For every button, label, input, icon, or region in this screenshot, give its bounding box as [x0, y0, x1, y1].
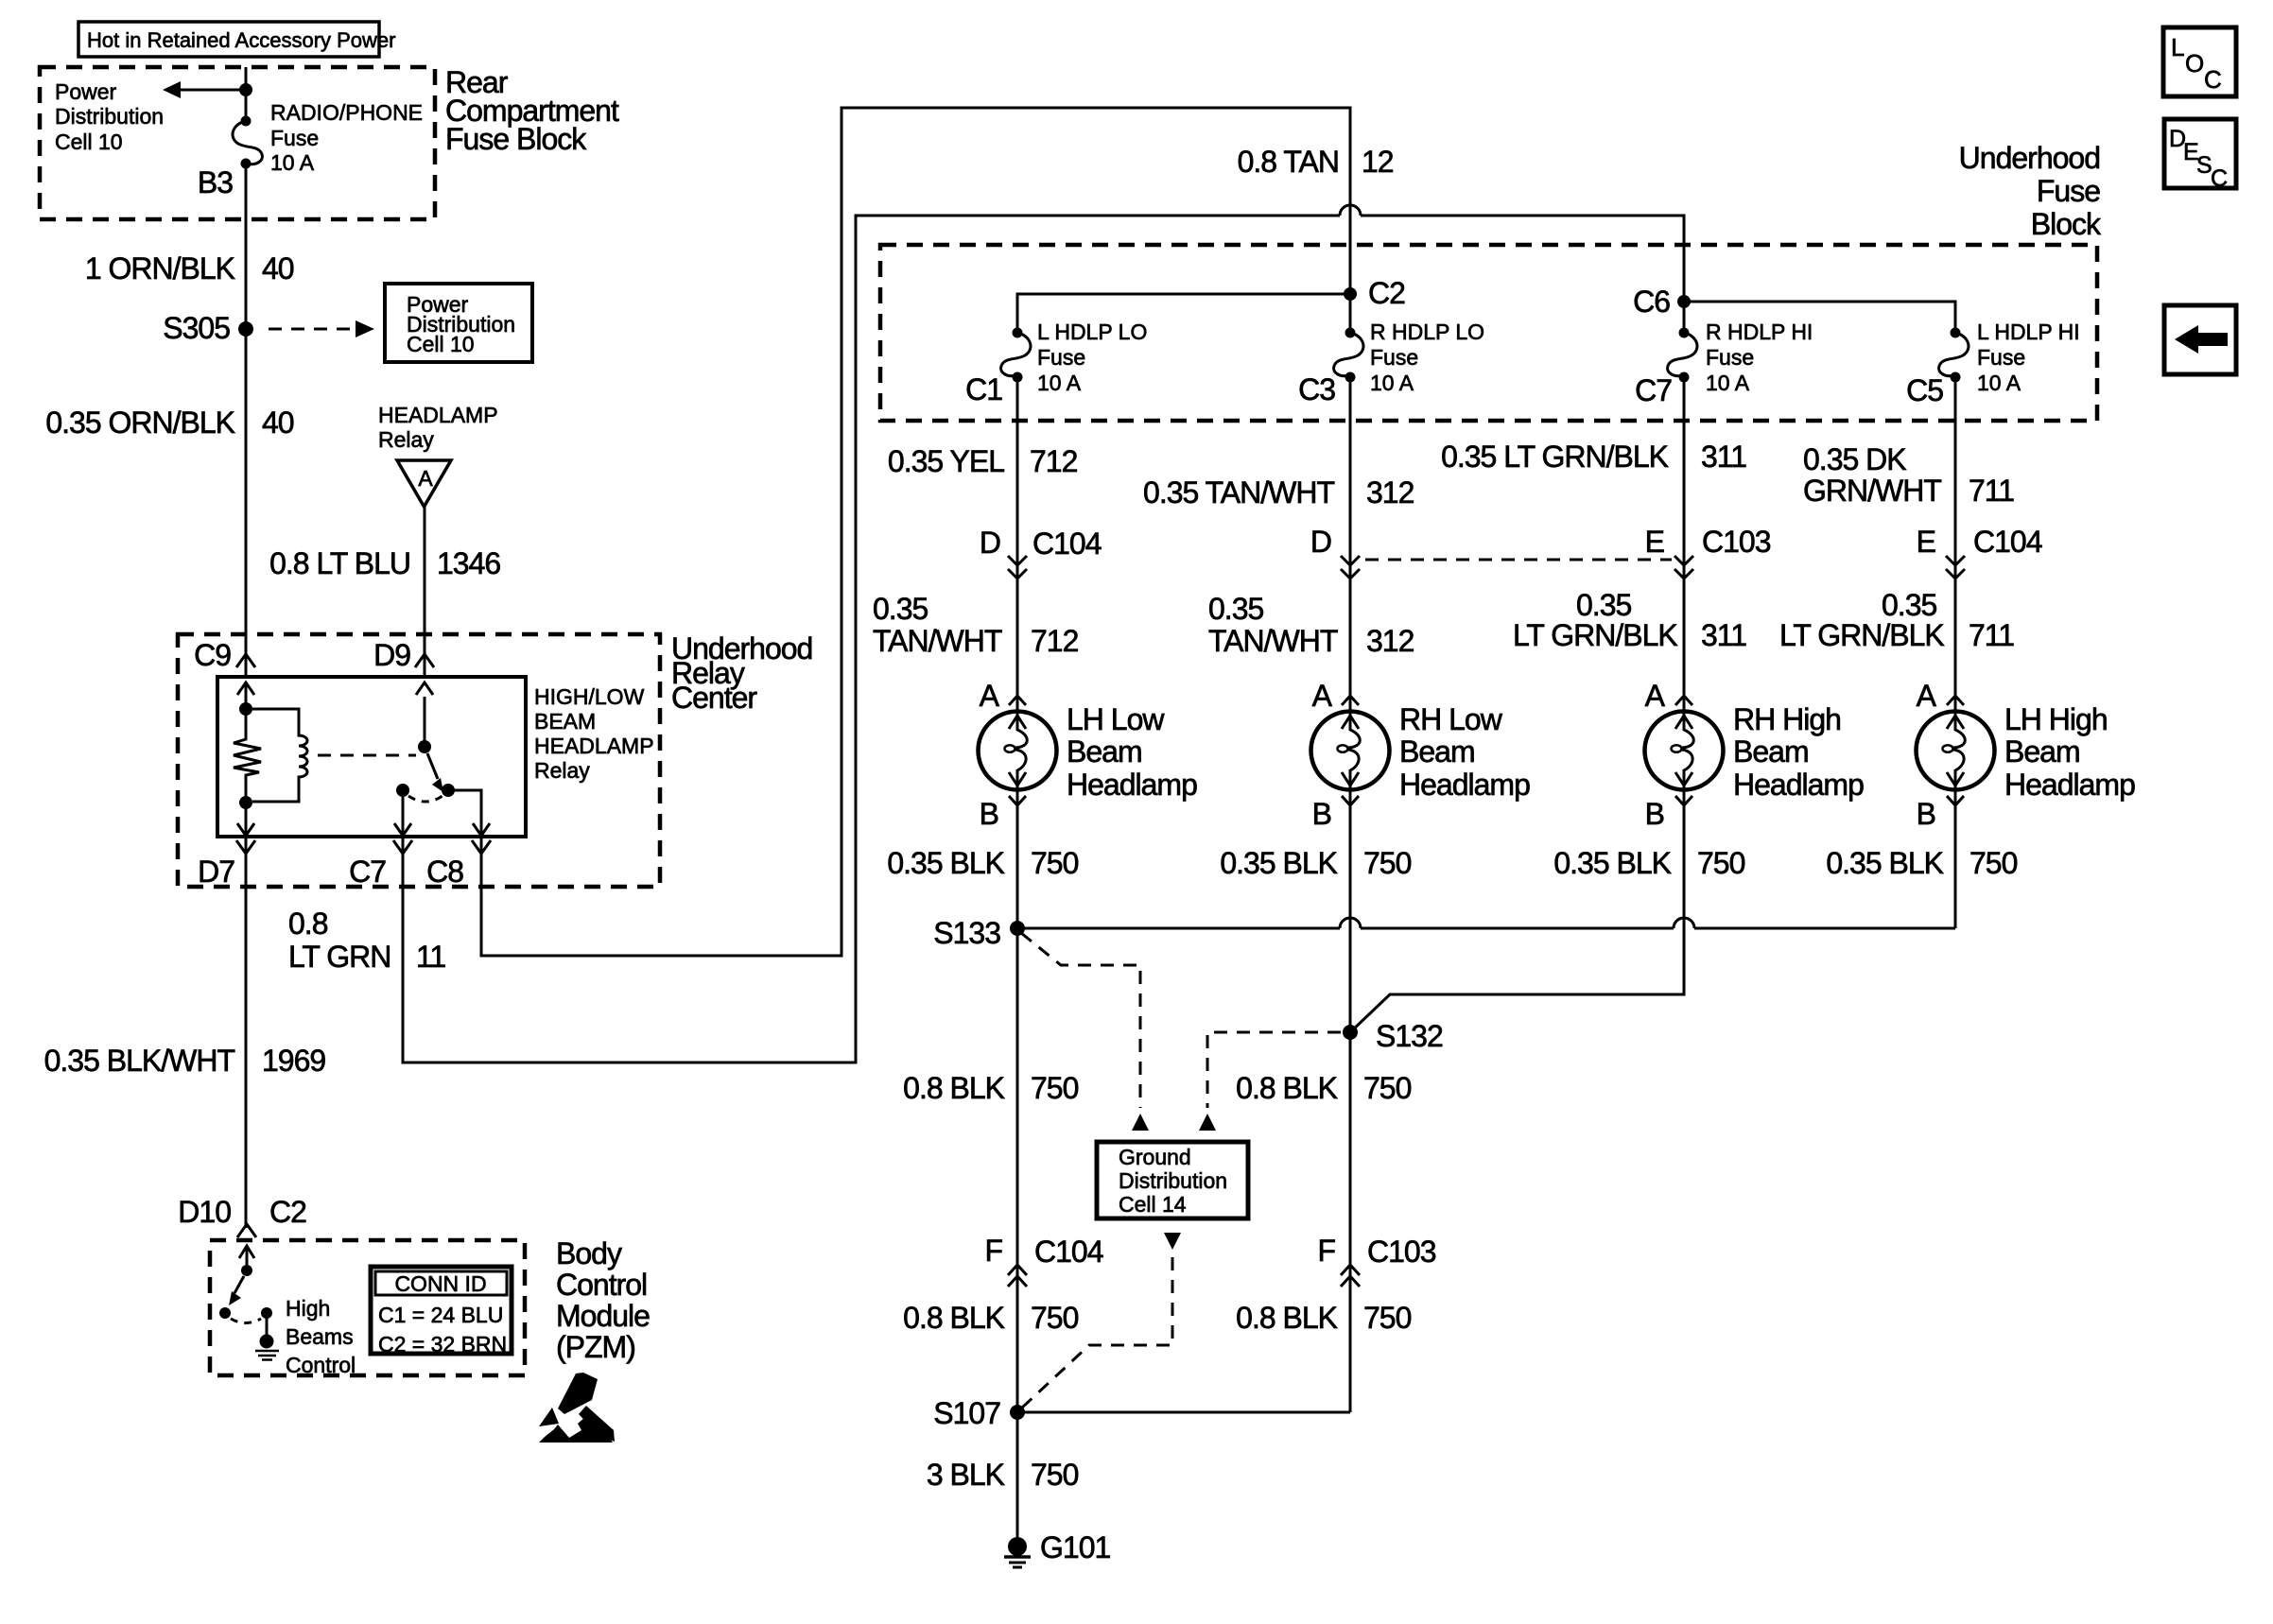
underhood relay center dashed box: [178, 634, 660, 887]
svg-text:Control: Control: [556, 1268, 647, 1302]
svg-text:311: 311: [1701, 618, 1746, 652]
label: Rear Compartment Fuse Block: [445, 65, 619, 156]
switch arm with arrowhead: [427, 753, 443, 792]
wire hop at RH low: [1340, 918, 1361, 928]
svg-text:C8: C8: [426, 855, 463, 889]
svg-text:Cell 10: Cell 10: [407, 332, 475, 356]
svg-text:G101: G101: [1040, 1530, 1110, 1564]
svg-text:LT GRN/BLK: LT GRN/BLK: [1779, 618, 1944, 652]
svg-text:Headlamp: Headlamp: [1733, 768, 1864, 802]
node: junction at fuse top: [239, 83, 252, 96]
svg-text:A: A: [980, 679, 1000, 713]
svg-text:C3: C3: [1298, 372, 1335, 406]
dashed reference from S133 to ground distribution: [1021, 933, 1140, 1108]
wire label: 0.8 BLK 750 col1 upper: [903, 1071, 1078, 1105]
wire: left contact to C7 with down arrow: [394, 797, 411, 836]
svg-text:Center: Center: [671, 681, 757, 715]
svg-text:10 A: 10 A: [1977, 371, 2021, 395]
node: coil top: [239, 702, 252, 716]
svg-text:S132: S132: [1376, 1019, 1443, 1053]
svg-text:C104: C104: [1034, 1235, 1103, 1269]
node: switch pivot: [418, 740, 431, 753]
svg-text:0.35: 0.35: [873, 592, 928, 626]
svg-text:B: B: [1645, 797, 1664, 831]
svg-text:C2: C2: [269, 1195, 306, 1229]
svg-text:A: A: [418, 466, 433, 491]
wire: C2 to L HDLP LO fuse: [1017, 294, 1350, 329]
svg-text:L: L: [2171, 33, 2184, 61]
svg-text:B: B: [980, 797, 998, 831]
wire: bus to col4: [1694, 927, 1955, 930]
wire label: 0.8 LT GRN 11: [288, 907, 445, 974]
svg-text:HEADLAMP: HEADLAMP: [378, 403, 498, 427]
label: Body Control Module (PZM): [556, 1236, 650, 1364]
label: LH High Beam Headlamp: [2004, 702, 2135, 802]
label: RH High Beam Headlamp: [1733, 702, 1864, 802]
svg-text:R HDLP HI: R HDLP HI: [1706, 320, 1813, 344]
svg-text:750: 750: [1969, 846, 2018, 880]
svg-text:312: 312: [1366, 475, 1414, 510]
svg-text:Beam: Beam: [2004, 734, 2080, 769]
svg-text:Headlamp: Headlamp: [1399, 768, 1530, 802]
svg-text:Block: Block: [2031, 207, 2102, 241]
svg-text:40: 40: [262, 251, 294, 285]
svg-text:0.8: 0.8: [288, 907, 328, 941]
wire label: 0.35 LT GRN/BLK 311: [1441, 440, 1746, 474]
connector D (C104) col2: [1310, 525, 1360, 579]
wire: lamp B down to S132: [1349, 789, 1352, 1412]
svg-text:C: C: [2204, 65, 2222, 94]
svg-text:311: 311: [1701, 440, 1746, 474]
svg-text:12: 12: [1362, 145, 1394, 179]
svg-text:C7: C7: [1635, 373, 1672, 407]
wire: B3 down to relay center: [245, 164, 248, 677]
svg-text:Distribution: Distribution: [55, 104, 164, 129]
node S133: [933, 916, 1025, 950]
svg-text:D9: D9: [373, 638, 410, 672]
svg-text:D10: D10: [178, 1195, 231, 1229]
connector E C104: [1917, 525, 2042, 579]
wire label: 0.8 TAN 12: [1238, 145, 1394, 179]
label: L HDLP HI Fuse 10 A: [1977, 320, 2080, 395]
label: HIGH/LOW BEAM HEADLAMP Relay: [534, 684, 654, 783]
wire: S132 leg joins S107: [1017, 1411, 1350, 1414]
connector chevron D7: [236, 840, 255, 854]
svg-text:A: A: [1917, 679, 1937, 713]
svg-text:Power: Power: [55, 79, 117, 104]
svg-text:Cell 14: Cell 14: [1119, 1192, 1187, 1217]
svg-text:CONN ID: CONN ID: [394, 1271, 486, 1296]
svg-text:10 A: 10 A: [1037, 371, 1082, 395]
rear compartment fuse block dashed box: [40, 67, 435, 219]
svg-text:D7: D7: [198, 855, 234, 889]
DESC reference box: [2164, 119, 2236, 192]
ground inside BCM: [255, 1313, 279, 1360]
wire label: 1 ORN/BLK 40: [85, 251, 294, 285]
fuse: L HDLP HI 10 A: [1939, 328, 1969, 383]
svg-text:10 A: 10 A: [270, 150, 315, 175]
svg-text:C7: C7: [349, 855, 386, 889]
connector chevron A col3: [1675, 696, 1692, 705]
lamp: LH High Beam Headlamp: [1917, 712, 1995, 790]
connector chevron D9: [415, 654, 434, 667]
back arrow box: [2164, 305, 2236, 374]
svg-text:Body: Body: [556, 1236, 622, 1270]
svg-text:LH High: LH High: [2004, 702, 2108, 736]
wire: C6 to L HDLP HI fuse: [1684, 302, 1955, 329]
fuse: RADIO/PHONE 10 A: [233, 116, 262, 169]
symbol: headlamp relay reference triangle A: [397, 460, 451, 507]
lamp: RH High Beam Headlamp: [1645, 712, 1724, 790]
svg-text:750: 750: [1031, 1071, 1079, 1105]
wire: lt grn run continues to C6: [1361, 216, 1684, 298]
label: RH Low Beam Headlamp: [1399, 702, 1530, 802]
svg-text:0.35 BLK: 0.35 BLK: [1826, 846, 1943, 880]
power label box: Hot in Retained Accessory Power: [78, 22, 396, 57]
lamp: RH Low Beam Headlamp: [1311, 712, 1390, 790]
svg-text:L HDLP LO: L HDLP LO: [1037, 320, 1147, 344]
svg-text:R HDLP LO: R HDLP LO: [1370, 320, 1484, 344]
svg-text:750: 750: [1363, 1071, 1412, 1105]
svg-text:B3: B3: [198, 165, 233, 199]
svg-text:TAN/WHT: TAN/WHT: [1208, 624, 1338, 658]
dashed link D to E: [1365, 559, 1672, 561]
svg-text:40: 40: [262, 406, 294, 440]
wire: coil bottom to D7 with down arrow: [237, 803, 254, 836]
wire: triangle to D9: [424, 507, 426, 677]
node C2: [1344, 287, 1357, 301]
svg-text:Fuse: Fuse: [2037, 174, 2100, 208]
svg-text:BEAM: BEAM: [534, 709, 596, 734]
node: coil bottom: [239, 796, 252, 809]
svg-text:750: 750: [1031, 1458, 1079, 1492]
connector chevron C7: [393, 840, 412, 854]
svg-text:E: E: [1917, 525, 1935, 559]
node S305: [163, 311, 253, 345]
svg-text:1 ORN/BLK: 1 ORN/BLK: [85, 251, 235, 285]
svg-text:0.35 DK: 0.35 DK: [1803, 442, 1906, 476]
wire: C8 tan run to low beam fuses: [481, 108, 1350, 956]
svg-text:Headlamp: Headlamp: [1067, 768, 1197, 802]
svg-text:Beam: Beam: [1399, 734, 1475, 769]
wire: lamp B down to ground bus: [1954, 789, 1957, 928]
wire hop at RH high: [1674, 918, 1694, 928]
reference box: Power Distribution Cell 10: [385, 284, 532, 362]
svg-text:0.8 TAN: 0.8 TAN: [1238, 145, 1339, 179]
connector chevron A: [1009, 696, 1026, 705]
underhood fuse block dashed box: [880, 245, 2097, 421]
svg-text:Relay: Relay: [378, 427, 434, 452]
wire label: 0.35 TAN/WHT 712: [873, 592, 1079, 658]
wire label: 0.35 BLK/WHT 1969: [44, 1044, 326, 1078]
svg-text:GRN/WHT: GRN/WHT: [1803, 474, 1941, 508]
svg-text:0.35: 0.35: [1882, 588, 1936, 622]
svg-text:0.35: 0.35: [1576, 588, 1631, 622]
svg-text:Beam: Beam: [1067, 734, 1142, 769]
CONN ID table: [371, 1267, 512, 1356]
svg-text:Beams: Beams: [286, 1324, 354, 1349]
label: R HDLP LO Fuse 10 A: [1370, 320, 1484, 395]
svg-text:C: C: [2211, 165, 2228, 192]
body control module dashed box: [210, 1240, 525, 1375]
svg-text:0.8 LT BLU: 0.8 LT BLU: [269, 546, 410, 580]
dashed actuator link: [318, 754, 416, 757]
wire: right contact to C8 with down arrow: [448, 790, 490, 836]
node: BCM left contact: [219, 1307, 231, 1319]
wire label: 0.35 DK GRN/WHT 711: [1803, 442, 2014, 508]
wire label: 0.8 LT BLU 1346: [269, 546, 500, 580]
svg-text:B: B: [1312, 797, 1331, 831]
svg-text:LT GRN/BLK: LT GRN/BLK: [1513, 618, 1677, 652]
connector E C103: [1645, 525, 1771, 579]
svg-text:HIGH/LOW: HIGH/LOW: [534, 684, 645, 709]
svg-text:Underhood: Underhood: [1959, 141, 2100, 175]
svg-text:D: D: [1310, 525, 1331, 559]
label: RADIO/PHONE Fuse 10 A: [270, 100, 423, 175]
wire label: 0.35 BLK 750 col3: [1553, 846, 1744, 880]
label: R HDLP HI Fuse 10 A: [1706, 320, 1813, 395]
wire: fuse C3 down to RH low beam: [1349, 379, 1352, 712]
wire label: 0.35 LT GRN/BLK 311 (below conn): [1513, 588, 1746, 652]
wire: BCM input with up arrow: [239, 1246, 254, 1270]
svg-text:312: 312: [1366, 624, 1414, 658]
svg-text:0.8 BLK: 0.8 BLK: [1236, 1071, 1338, 1105]
svg-text:E: E: [1645, 525, 1664, 559]
wire label: 0.8 BLK 750 col2 lower: [1236, 1301, 1411, 1335]
svg-text:750: 750: [1697, 846, 1745, 880]
lamp: LH Low Beam Headlamp: [979, 712, 1057, 790]
wire label: 0.8 BLK 750 col1 lower: [903, 1301, 1078, 1335]
svg-text:1346: 1346: [437, 546, 500, 580]
arrow out of ground distribution box: [1164, 1233, 1181, 1250]
label: L HDLP LO Fuse 10 A: [1037, 320, 1147, 395]
wire: feed into radio/phone fuse: [245, 67, 248, 116]
svg-text:0.35 BLK: 0.35 BLK: [1220, 846, 1337, 880]
svg-text:D: D: [980, 526, 1000, 560]
svg-text:HEADLAMP: HEADLAMP: [534, 734, 654, 758]
svg-text:Hot in Retained Accessory Powe: Hot in Retained Accessory Power: [87, 28, 396, 52]
node S107: [933, 1396, 1025, 1430]
svg-text:750: 750: [1363, 1301, 1412, 1335]
node C6: [1677, 295, 1691, 308]
switch pivot wire with up arrow: [416, 682, 433, 742]
node: BCM switch pivot: [241, 1265, 252, 1276]
wire label: 0.35 ORN/BLK 40: [45, 406, 293, 440]
svg-text:C104: C104: [1032, 527, 1102, 561]
svg-text:Distribution: Distribution: [1119, 1168, 1227, 1193]
svg-text:0.35 BLK/WHT: 0.35 BLK/WHT: [44, 1044, 235, 1078]
svg-text:1969: 1969: [262, 1044, 325, 1078]
wire: lamp B down through hop to S132 link: [1350, 789, 1684, 1032]
svg-text:RH High: RH High: [1733, 702, 1841, 736]
reference box: Ground Distribution Cell 14: [1097, 1142, 1248, 1218]
connector chevron A col4: [1947, 696, 1964, 705]
wire label: 0.35 BLK 750: [887, 846, 1078, 880]
wire: dashed reference arrow from S305: [269, 320, 374, 337]
connector chevron D10/C2: [237, 1224, 256, 1237]
ESD sensitive symbol: [539, 1373, 615, 1443]
svg-text:C103: C103: [1702, 525, 1771, 559]
svg-text:F: F: [984, 1234, 1002, 1268]
svg-text:711: 711: [1969, 474, 2014, 508]
arrow into ground distribution (right): [1199, 1114, 1216, 1131]
wire: fuse C1 down to LH low beam: [1016, 379, 1019, 712]
BCM switch arm with arrowhead: [229, 1276, 244, 1305]
connector F C104: [984, 1234, 1102, 1287]
coil inside relay: [252, 709, 307, 802]
svg-text:Headlamp: Headlamp: [2004, 768, 2135, 802]
connector chevron A col2: [1342, 696, 1359, 705]
svg-text:Cell 10: Cell 10: [55, 130, 123, 154]
svg-text:C103: C103: [1367, 1235, 1436, 1269]
svg-text:C1: C1: [965, 372, 1002, 406]
connector chevron B col4: [1947, 796, 1964, 805]
svg-text:Relay: Relay: [534, 758, 590, 783]
label: Underhood Relay Center: [671, 631, 812, 715]
svg-text:11: 11: [416, 940, 445, 974]
wire label: 0.35 LT GRN/BLK 711: [1779, 588, 2014, 652]
relay coil branch wire with arrow up: [237, 682, 254, 709]
svg-text:712: 712: [1030, 444, 1078, 478]
svg-text:A: A: [1645, 679, 1666, 713]
svg-text:0.35 BLK: 0.35 BLK: [1553, 846, 1671, 880]
svg-text:C2: C2: [1368, 276, 1405, 310]
svg-text:S107: S107: [933, 1396, 1000, 1430]
wire: lamp B down to S133: [1016, 789, 1019, 928]
wire label: 0.35 YEL 712: [888, 444, 1078, 478]
wire: ground bus S133 to LH high: [1017, 927, 1340, 930]
svg-text:0.8 BLK: 0.8 BLK: [903, 1301, 1005, 1335]
wire: fuse C7 down to RH high beam: [1683, 379, 1686, 712]
svg-text:LH Low: LH Low: [1067, 702, 1165, 736]
dashed throw arc BCM: [231, 1319, 261, 1323]
svg-text:O: O: [2185, 49, 2204, 78]
node S132: [1343, 1019, 1443, 1053]
label: LH Low Beam Headlamp: [1067, 702, 1197, 802]
svg-text:S133: S133: [933, 916, 1000, 950]
svg-text:A: A: [1312, 679, 1333, 713]
svg-text:Fuse: Fuse: [1037, 345, 1085, 370]
wire label: 3 BLK 750: [927, 1458, 1079, 1492]
svg-text:RADIO/PHONE: RADIO/PHONE: [270, 100, 423, 125]
svg-text:10 A: 10 A: [1706, 371, 1750, 395]
svg-text:3 BLK: 3 BLK: [927, 1458, 1005, 1492]
connector chevron B col3: [1675, 796, 1692, 805]
wire label: 0.35 BLK 750 col4: [1826, 846, 2017, 880]
svg-text:0.35: 0.35: [1208, 592, 1263, 626]
svg-text:LT GRN: LT GRN: [288, 940, 390, 974]
svg-text:750: 750: [1031, 1301, 1079, 1335]
svg-text:711: 711: [1969, 618, 2014, 652]
node: left stationary contact: [396, 784, 409, 797]
wire label: 0.8 BLK 750 col2 upper: [1236, 1071, 1411, 1105]
ground G101: [1004, 1530, 1110, 1567]
svg-text:High: High: [286, 1296, 330, 1321]
connector D C104: [980, 526, 1102, 579]
wire: C6 down to R HDLP HI fuse: [1683, 302, 1686, 329]
relay box: HIGH/LOW BEAM HEADLAMP relay: [217, 677, 526, 837]
svg-text:0.8 BLK: 0.8 BLK: [903, 1071, 1005, 1105]
svg-text:C104: C104: [1973, 525, 2042, 559]
wire label: 0.35 TAN/WHT 312: [1143, 475, 1414, 510]
svg-text:Beam: Beam: [1733, 734, 1809, 769]
svg-text:Ground: Ground: [1119, 1145, 1191, 1169]
svg-text:B: B: [1917, 797, 1935, 831]
svg-text:Fuse: Fuse: [270, 126, 319, 150]
dashed reference from S132 to ground distribution: [1207, 1032, 1341, 1108]
connector chevron B col2: [1342, 796, 1359, 805]
wire label: 0.35 BLK 750 col2: [1220, 846, 1411, 880]
connector chevron C8: [472, 840, 491, 854]
svg-text:0.8 BLK: 0.8 BLK: [1236, 1301, 1338, 1335]
svg-text:0.35 YEL: 0.35 YEL: [888, 444, 1004, 478]
resistor inside relay: [234, 709, 261, 803]
svg-text:C5: C5: [1906, 373, 1943, 407]
dashed reference to S107: [1021, 1257, 1172, 1408]
label: High Beams Control: [286, 1296, 356, 1377]
svg-text:750: 750: [1363, 846, 1412, 880]
node: BCM right contact: [261, 1307, 272, 1319]
dashed throw arc: [408, 796, 442, 802]
svg-text:Fuse: Fuse: [1977, 345, 2025, 370]
wire label: 0.35 TAN/WHT 312 (below conn): [1208, 592, 1414, 658]
svg-text:0.35 TAN/WHT: 0.35 TAN/WHT: [1143, 475, 1334, 510]
svg-text:0.35 BLK: 0.35 BLK: [887, 846, 1004, 880]
svg-text:RH Low: RH Low: [1399, 702, 1503, 736]
svg-text:750: 750: [1031, 846, 1079, 880]
svg-text:0.35 ORN/BLK: 0.35 ORN/BLK: [45, 406, 234, 440]
svg-text:Fuse: Fuse: [1706, 345, 1754, 370]
svg-text:C1 = 24 BLU: C1 = 24 BLU: [378, 1303, 503, 1327]
arrow into ground distribution (left): [1132, 1114, 1149, 1131]
connector chevron B: [1009, 796, 1026, 805]
svg-text:Fuse Block: Fuse Block: [445, 122, 587, 156]
svg-text:TAN/WHT: TAN/WHT: [873, 624, 1002, 658]
svg-text:10 A: 10 A: [1370, 371, 1414, 395]
svg-text:L HDLP HI: L HDLP HI: [1977, 320, 2080, 344]
svg-text:Control: Control: [286, 1353, 356, 1377]
wire: C7 lt grn run to high beam fuses: [403, 216, 1340, 1063]
wire: C2 down to R HDLP LO fuse: [1349, 294, 1352, 329]
svg-text:C9: C9: [194, 638, 231, 672]
wire: fuse C5 down to LH high beam: [1954, 379, 1957, 712]
svg-text:C2 = 32 BRN: C2 = 32 BRN: [378, 1332, 507, 1356]
wire: D7 down to BCM: [245, 837, 248, 1228]
svg-text:C6: C6: [1633, 285, 1670, 319]
svg-text:S305: S305: [163, 311, 230, 345]
label: HEADLAMP Relay: [378, 403, 498, 452]
svg-text:Fuse: Fuse: [1370, 345, 1418, 370]
svg-text:Module: Module: [556, 1299, 650, 1333]
wire: S133 down to G101: [1016, 928, 1019, 1541]
fuse: R HDLP HI 10 A: [1668, 328, 1697, 383]
fuse: R HDLP LO 10 A: [1334, 328, 1363, 383]
node: right stationary contact: [442, 784, 455, 797]
connector F C103: [1317, 1234, 1435, 1287]
svg-text:(PZM): (PZM): [556, 1330, 635, 1364]
wire: bus middle: [1361, 927, 1674, 930]
svg-text:712: 712: [1031, 624, 1079, 658]
svg-text:F: F: [1317, 1234, 1335, 1268]
wire: arrow to power distribution: [178, 89, 244, 92]
fuse: L HDLP LO 10 A: [1001, 328, 1031, 383]
LOC reference box: [2163, 27, 2236, 96]
label: Power Distribution Cell 10 (inside rear fuse block): [55, 79, 164, 154]
connector chevron C9: [236, 654, 255, 667]
svg-text:0.35 LT GRN/BLK: 0.35 LT GRN/BLK: [1441, 440, 1669, 474]
label: Underhood Fuse Block: [1959, 141, 2102, 241]
wire hop over tan wire: [1340, 205, 1361, 216]
